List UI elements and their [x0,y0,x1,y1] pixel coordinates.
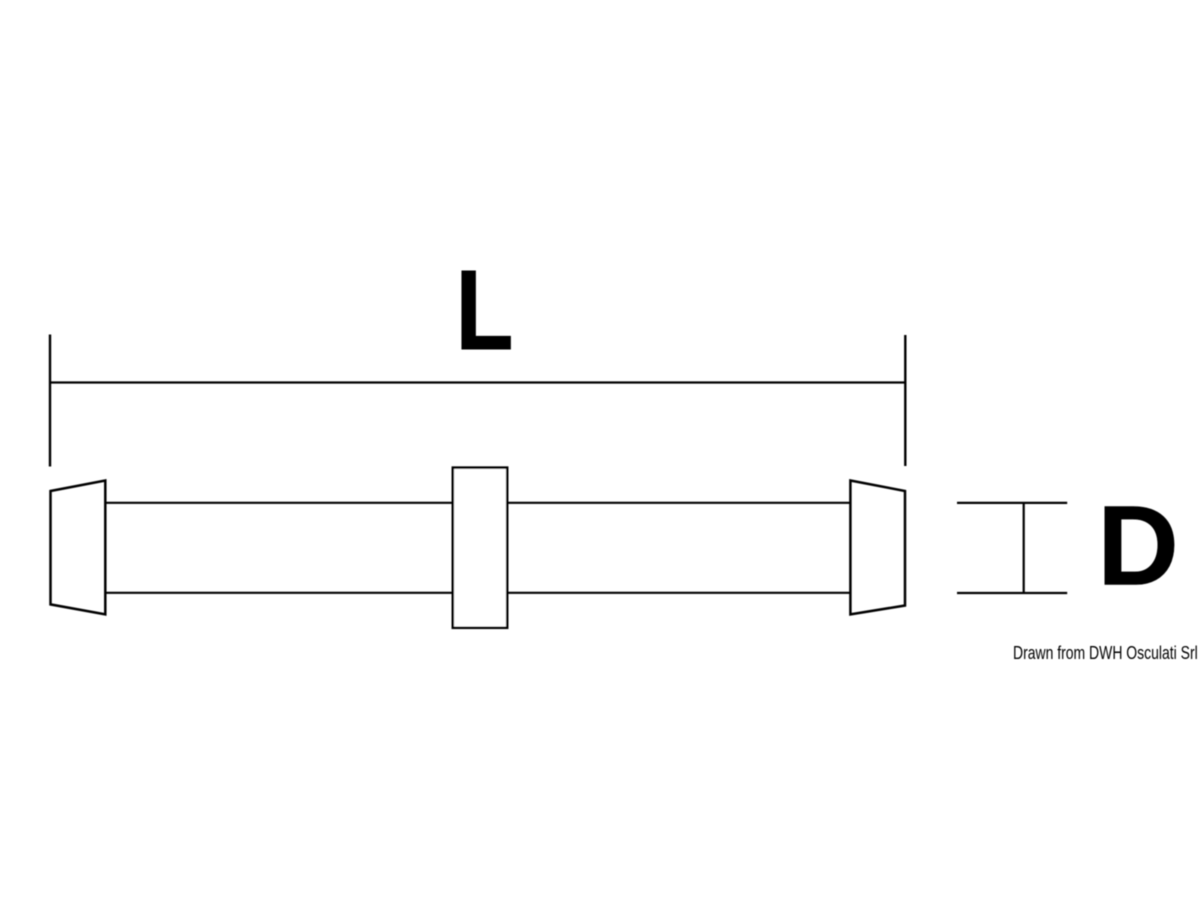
svg-text:L: L [456,247,514,373]
svg-text:D: D [1097,483,1179,609]
D extension line bottom [957,592,1067,594]
extension line right [904,335,906,466]
tube top line [105,502,850,504]
center mounting block [453,468,507,628]
svg-text:Drawn from DWH Osculati Srl: Drawn from DWH Osculati Srl [1013,643,1198,663]
D extension line top [957,502,1067,504]
tube bottom line [105,592,850,594]
left end cap [51,481,106,615]
dimension line L [50,381,905,383]
right end cap [850,481,905,615]
D dimension line vertical [1023,502,1025,594]
extension line left [49,335,51,467]
